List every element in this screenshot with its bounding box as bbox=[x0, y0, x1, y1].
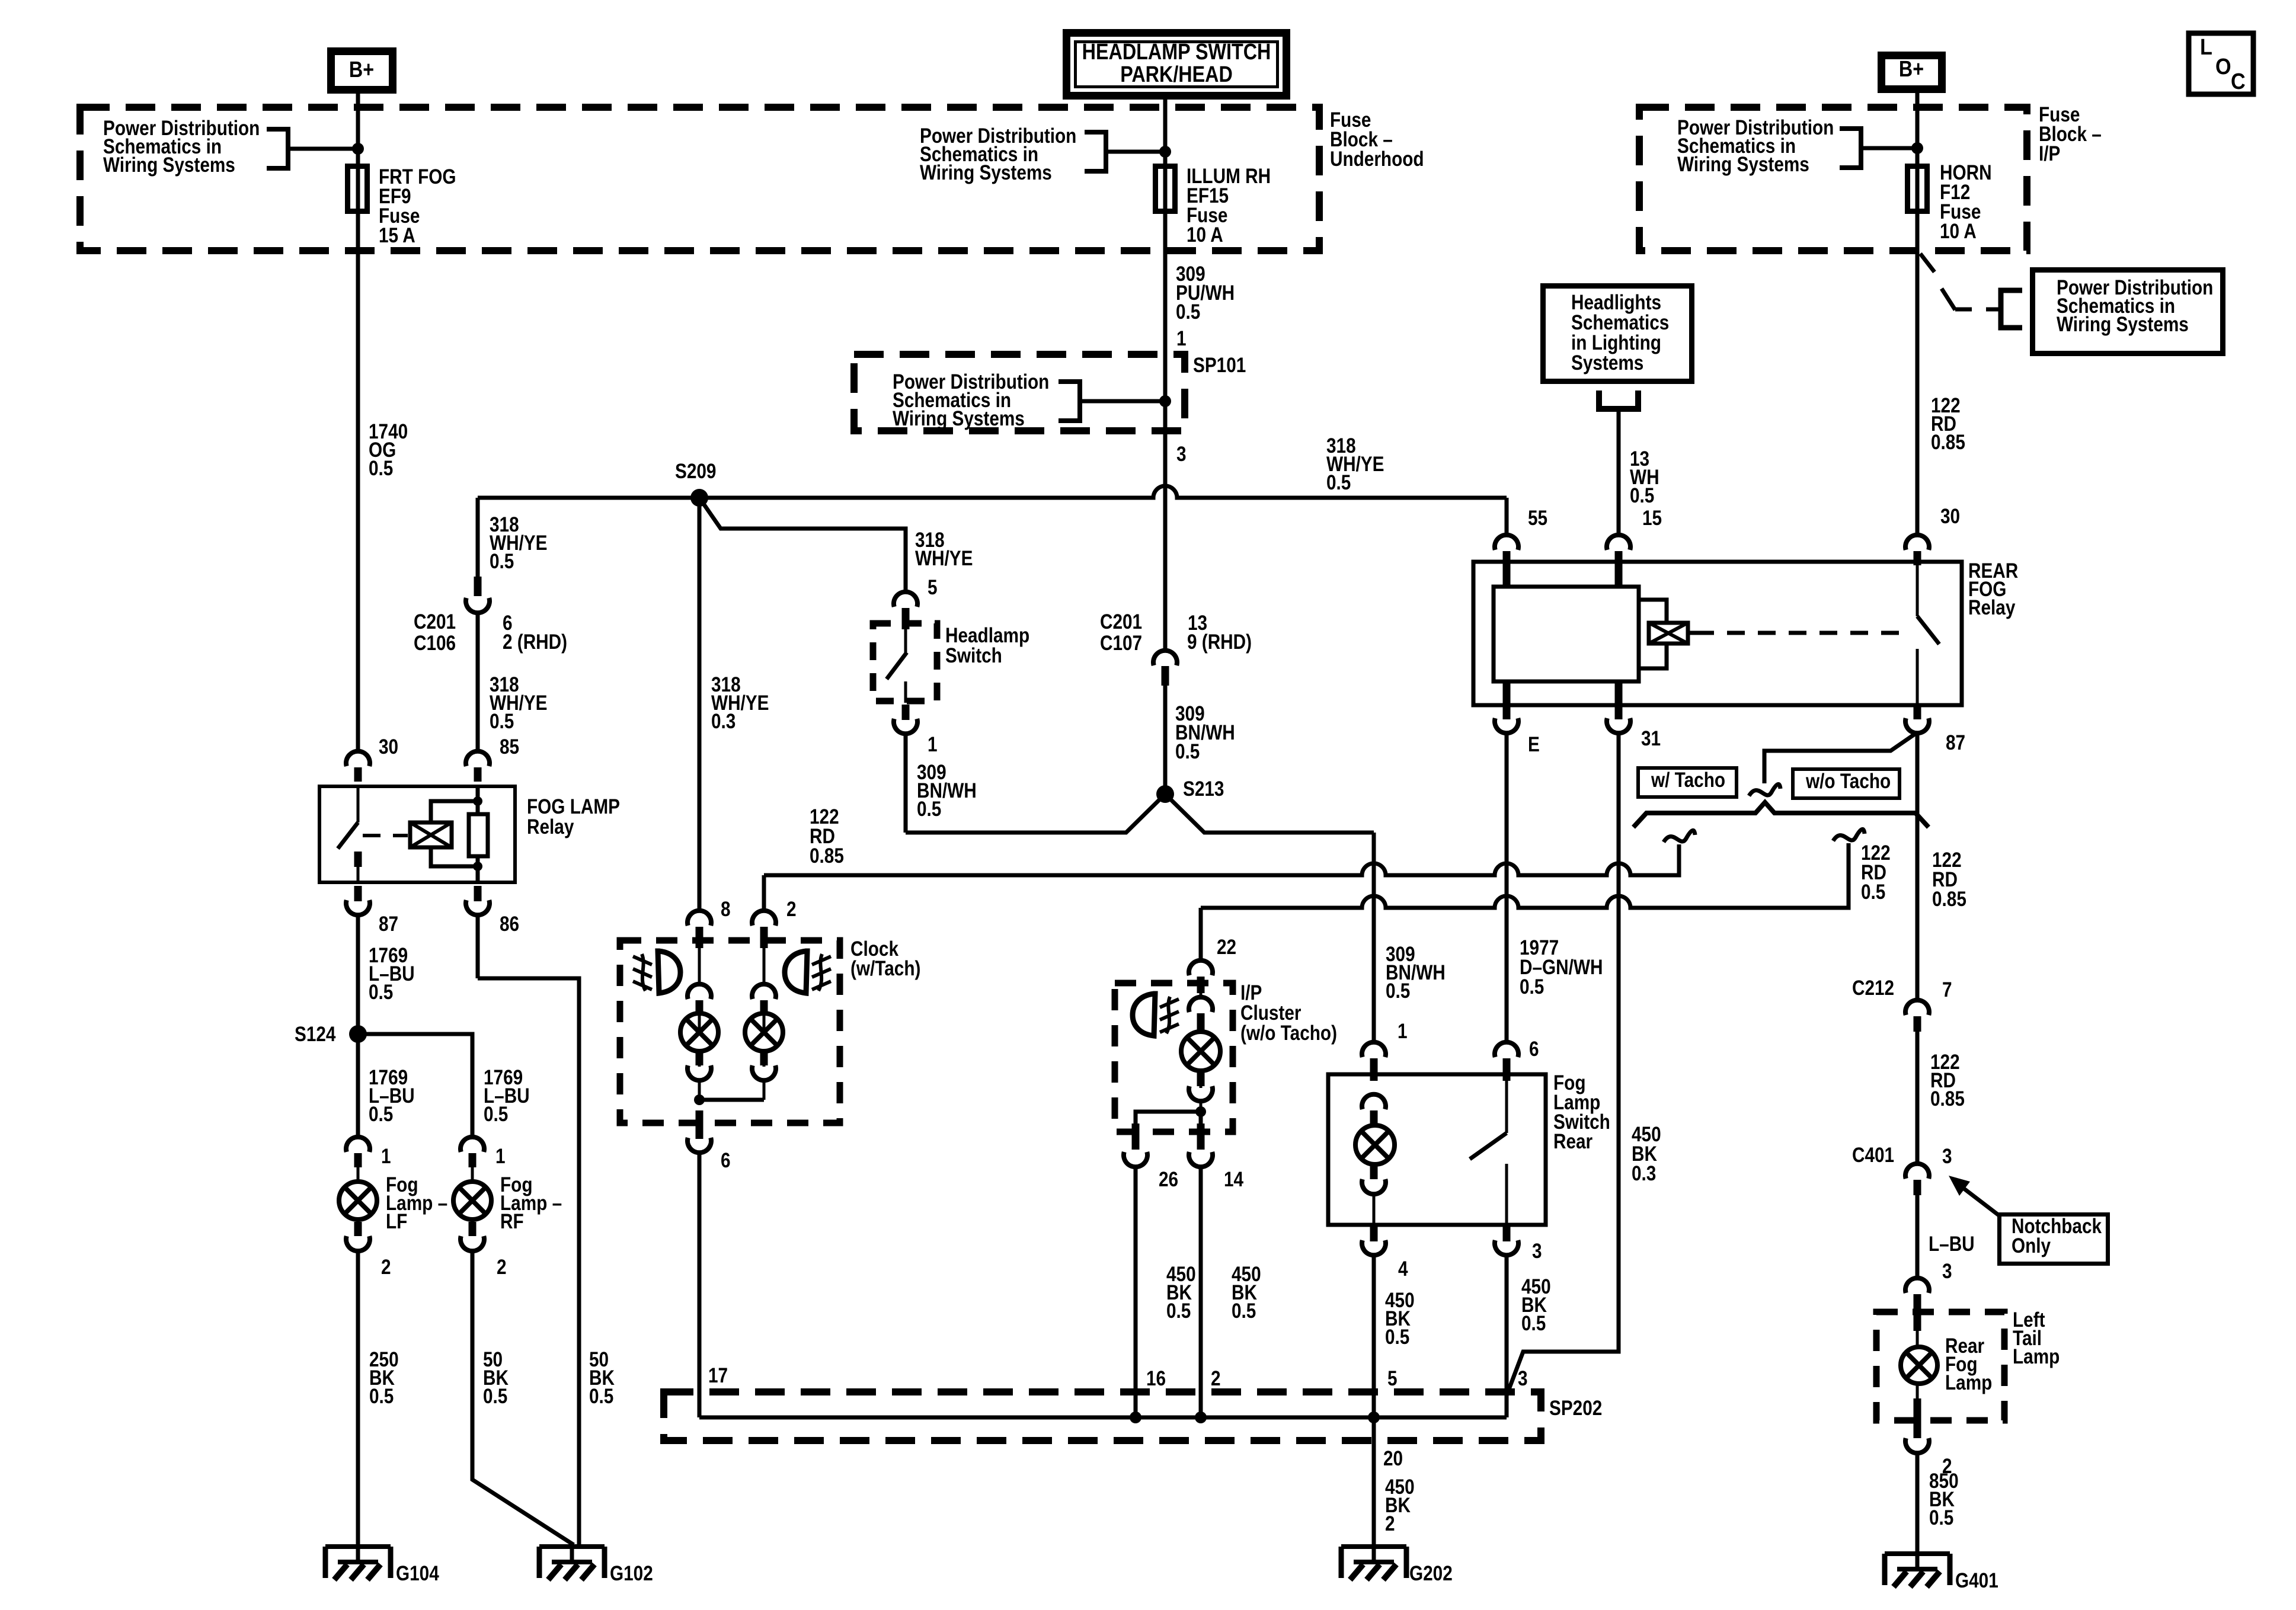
svg-text:16: 16 bbox=[1146, 1367, 1166, 1390]
svg-text:3: 3 bbox=[1942, 1260, 1952, 1283]
svg-text:Relay: Relay bbox=[1968, 596, 2015, 619]
svg-text:0.5: 0.5 bbox=[589, 1385, 613, 1408]
svg-text:86: 86 bbox=[500, 913, 519, 936]
svg-text:30: 30 bbox=[1940, 505, 1960, 528]
svg-text:2: 2 bbox=[381, 1256, 391, 1279]
svg-text:2: 2 bbox=[497, 1256, 507, 1279]
svg-text:G202: G202 bbox=[1409, 1562, 1453, 1585]
svg-text:Wiring Systems: Wiring Systems bbox=[920, 161, 1052, 184]
svg-text:0.3: 0.3 bbox=[711, 710, 736, 733]
svg-text:0.5: 0.5 bbox=[369, 457, 393, 480]
svg-text:15 A: 15 A bbox=[379, 224, 415, 247]
svg-text:30: 30 bbox=[379, 735, 398, 758]
svg-text:87: 87 bbox=[379, 913, 398, 936]
svg-text:0.5: 0.5 bbox=[1326, 471, 1351, 494]
svg-text:Relay: Relay bbox=[527, 815, 574, 838]
svg-text:0.85: 0.85 bbox=[1931, 431, 1965, 454]
svg-text:6: 6 bbox=[1529, 1038, 1539, 1061]
svg-text:0.5: 0.5 bbox=[1929, 1506, 1953, 1529]
svg-text:0.85: 0.85 bbox=[810, 844, 844, 868]
svg-text:10 A: 10 A bbox=[1187, 223, 1223, 247]
svg-text:C401: C401 bbox=[1852, 1144, 1894, 1167]
svg-text:87: 87 bbox=[1946, 731, 1965, 754]
svg-text:Wiring Systems: Wiring Systems bbox=[103, 153, 235, 177]
svg-text:Underhood: Underhood bbox=[1330, 148, 1424, 171]
svg-text:FOG LAMP: FOG LAMP bbox=[527, 795, 620, 818]
svg-text:3: 3 bbox=[1532, 1240, 1542, 1263]
svg-text:8: 8 bbox=[721, 898, 731, 921]
svg-text:Only: Only bbox=[2012, 1234, 2051, 1257]
svg-text:0.5: 0.5 bbox=[1385, 1326, 1409, 1349]
svg-text:0.5: 0.5 bbox=[1175, 740, 1200, 763]
svg-text:20: 20 bbox=[1383, 1447, 1403, 1470]
svg-text:3: 3 bbox=[1518, 1367, 1528, 1390]
svg-text:0.5: 0.5 bbox=[1386, 980, 1410, 1003]
svg-text:Wiring Systems: Wiring Systems bbox=[2057, 313, 2189, 336]
svg-text:55: 55 bbox=[1528, 507, 1547, 530]
svg-text:0.5: 0.5 bbox=[483, 1385, 507, 1408]
svg-text:6: 6 bbox=[721, 1149, 731, 1172]
svg-text:L: L bbox=[2200, 34, 2212, 59]
svg-text:SP202: SP202 bbox=[1549, 1397, 1602, 1420]
svg-text:PARK/HEAD: PARK/HEAD bbox=[1120, 62, 1233, 87]
svg-text:0.5: 0.5 bbox=[1166, 1299, 1191, 1323]
svg-text:B+: B+ bbox=[349, 57, 374, 82]
svg-text:(w/Tach): (w/Tach) bbox=[850, 957, 920, 980]
svg-text:Schematics: Schematics bbox=[1571, 311, 1669, 334]
svg-text:I/P: I/P bbox=[1240, 981, 1262, 1004]
svg-text:in Lighting: in Lighting bbox=[1571, 331, 1661, 354]
svg-text:Lamp: Lamp bbox=[1945, 1371, 1992, 1394]
svg-text:C: C bbox=[2231, 68, 2246, 94]
svg-text:C106: C106 bbox=[414, 632, 456, 655]
svg-text:0.5: 0.5 bbox=[1232, 1299, 1256, 1323]
svg-text:HEADLAMP SWITCH: HEADLAMP SWITCH bbox=[1082, 40, 1271, 65]
svg-text:3: 3 bbox=[1942, 1145, 1952, 1168]
svg-text:Lamp: Lamp bbox=[2013, 1345, 2060, 1368]
svg-text:SP101: SP101 bbox=[1193, 354, 1246, 377]
svg-text:0.5: 0.5 bbox=[369, 1385, 394, 1408]
svg-text:1: 1 bbox=[928, 733, 938, 756]
svg-text:0.5: 0.5 bbox=[490, 710, 514, 733]
svg-text:31: 31 bbox=[1641, 727, 1661, 750]
svg-text:17: 17 bbox=[708, 1364, 728, 1387]
svg-text:Switch: Switch bbox=[945, 644, 1002, 667]
svg-text:5: 5 bbox=[1387, 1367, 1398, 1390]
svg-text:0.5: 0.5 bbox=[1630, 484, 1654, 507]
svg-text:85: 85 bbox=[500, 735, 519, 758]
svg-text:L–BU: L–BU bbox=[1929, 1233, 1975, 1256]
svg-text:RF: RF bbox=[500, 1210, 524, 1233]
svg-text:0.5: 0.5 bbox=[917, 798, 941, 821]
svg-text:Headlights: Headlights bbox=[1571, 291, 1661, 314]
svg-text:0.3: 0.3 bbox=[1632, 1162, 1656, 1185]
svg-text:S124: S124 bbox=[295, 1023, 335, 1046]
svg-text:0.5: 0.5 bbox=[484, 1103, 508, 1126]
svg-text:(w/o Tacho): (w/o Tacho) bbox=[1240, 1022, 1337, 1045]
svg-text:O: O bbox=[2215, 53, 2231, 79]
svg-text:3: 3 bbox=[1176, 443, 1187, 466]
svg-text:0.85: 0.85 bbox=[1930, 1087, 1965, 1110]
svg-text:2: 2 bbox=[1211, 1367, 1221, 1390]
svg-text:22: 22 bbox=[1217, 936, 1236, 959]
svg-text:C107: C107 bbox=[1100, 632, 1142, 655]
svg-text:10 A: 10 A bbox=[1940, 220, 1977, 243]
svg-text:2: 2 bbox=[786, 898, 797, 921]
svg-text:Wiring Systems: Wiring Systems bbox=[893, 407, 1025, 430]
svg-text:0.5: 0.5 bbox=[490, 550, 514, 573]
svg-text:0.5: 0.5 bbox=[1521, 1312, 1546, 1335]
svg-text:0.5: 0.5 bbox=[1176, 300, 1200, 324]
svg-text:Cluster: Cluster bbox=[1240, 1001, 1302, 1025]
svg-text:S213: S213 bbox=[1183, 777, 1224, 801]
svg-text:2: 2 bbox=[1385, 1512, 1395, 1535]
svg-text:S209: S209 bbox=[675, 460, 716, 483]
svg-text:0.85: 0.85 bbox=[1932, 888, 1966, 911]
svg-text:7: 7 bbox=[1942, 978, 1952, 1001]
svg-text:1: 1 bbox=[1176, 327, 1187, 350]
svg-text:5: 5 bbox=[928, 576, 938, 599]
svg-text:26: 26 bbox=[1159, 1168, 1178, 1191]
svg-text:LF: LF bbox=[386, 1210, 407, 1233]
svg-text:C201: C201 bbox=[1100, 610, 1142, 633]
svg-text:w/o Tacho: w/o Tacho bbox=[1805, 770, 1891, 793]
svg-text:15: 15 bbox=[1642, 507, 1662, 530]
svg-text:Rear: Rear bbox=[1553, 1130, 1593, 1153]
svg-text:1: 1 bbox=[1398, 1020, 1408, 1043]
svg-text:9 (RHD): 9 (RHD) bbox=[1187, 630, 1252, 654]
svg-text:1: 1 bbox=[381, 1145, 391, 1168]
svg-text:0.5: 0.5 bbox=[1520, 975, 1544, 998]
svg-text:G401: G401 bbox=[1955, 1569, 1998, 1592]
svg-text:0.5: 0.5 bbox=[1861, 881, 1885, 904]
svg-text:E: E bbox=[1528, 733, 1540, 756]
svg-text:4: 4 bbox=[1398, 1257, 1408, 1281]
svg-text:WH/YE: WH/YE bbox=[915, 547, 973, 570]
svg-text:C201: C201 bbox=[414, 610, 456, 633]
svg-text:0.5: 0.5 bbox=[369, 1103, 393, 1126]
svg-text:14: 14 bbox=[1224, 1168, 1243, 1191]
svg-text:I/P: I/P bbox=[2039, 142, 2060, 165]
svg-text:C212: C212 bbox=[1852, 977, 1894, 1000]
svg-text:G104: G104 bbox=[396, 1562, 439, 1585]
svg-text:1: 1 bbox=[495, 1145, 506, 1168]
svg-text:Wiring Systems: Wiring Systems bbox=[1677, 153, 1809, 176]
svg-text:w/ Tacho: w/ Tacho bbox=[1651, 769, 1725, 792]
svg-text:0.5: 0.5 bbox=[369, 981, 393, 1004]
svg-text:B+: B+ bbox=[1899, 57, 1924, 82]
svg-text:Headlamp: Headlamp bbox=[945, 624, 1029, 647]
svg-text:G102: G102 bbox=[610, 1562, 653, 1585]
svg-text:Systems: Systems bbox=[1571, 351, 1643, 375]
svg-text:2 (RHD): 2 (RHD) bbox=[503, 630, 567, 654]
